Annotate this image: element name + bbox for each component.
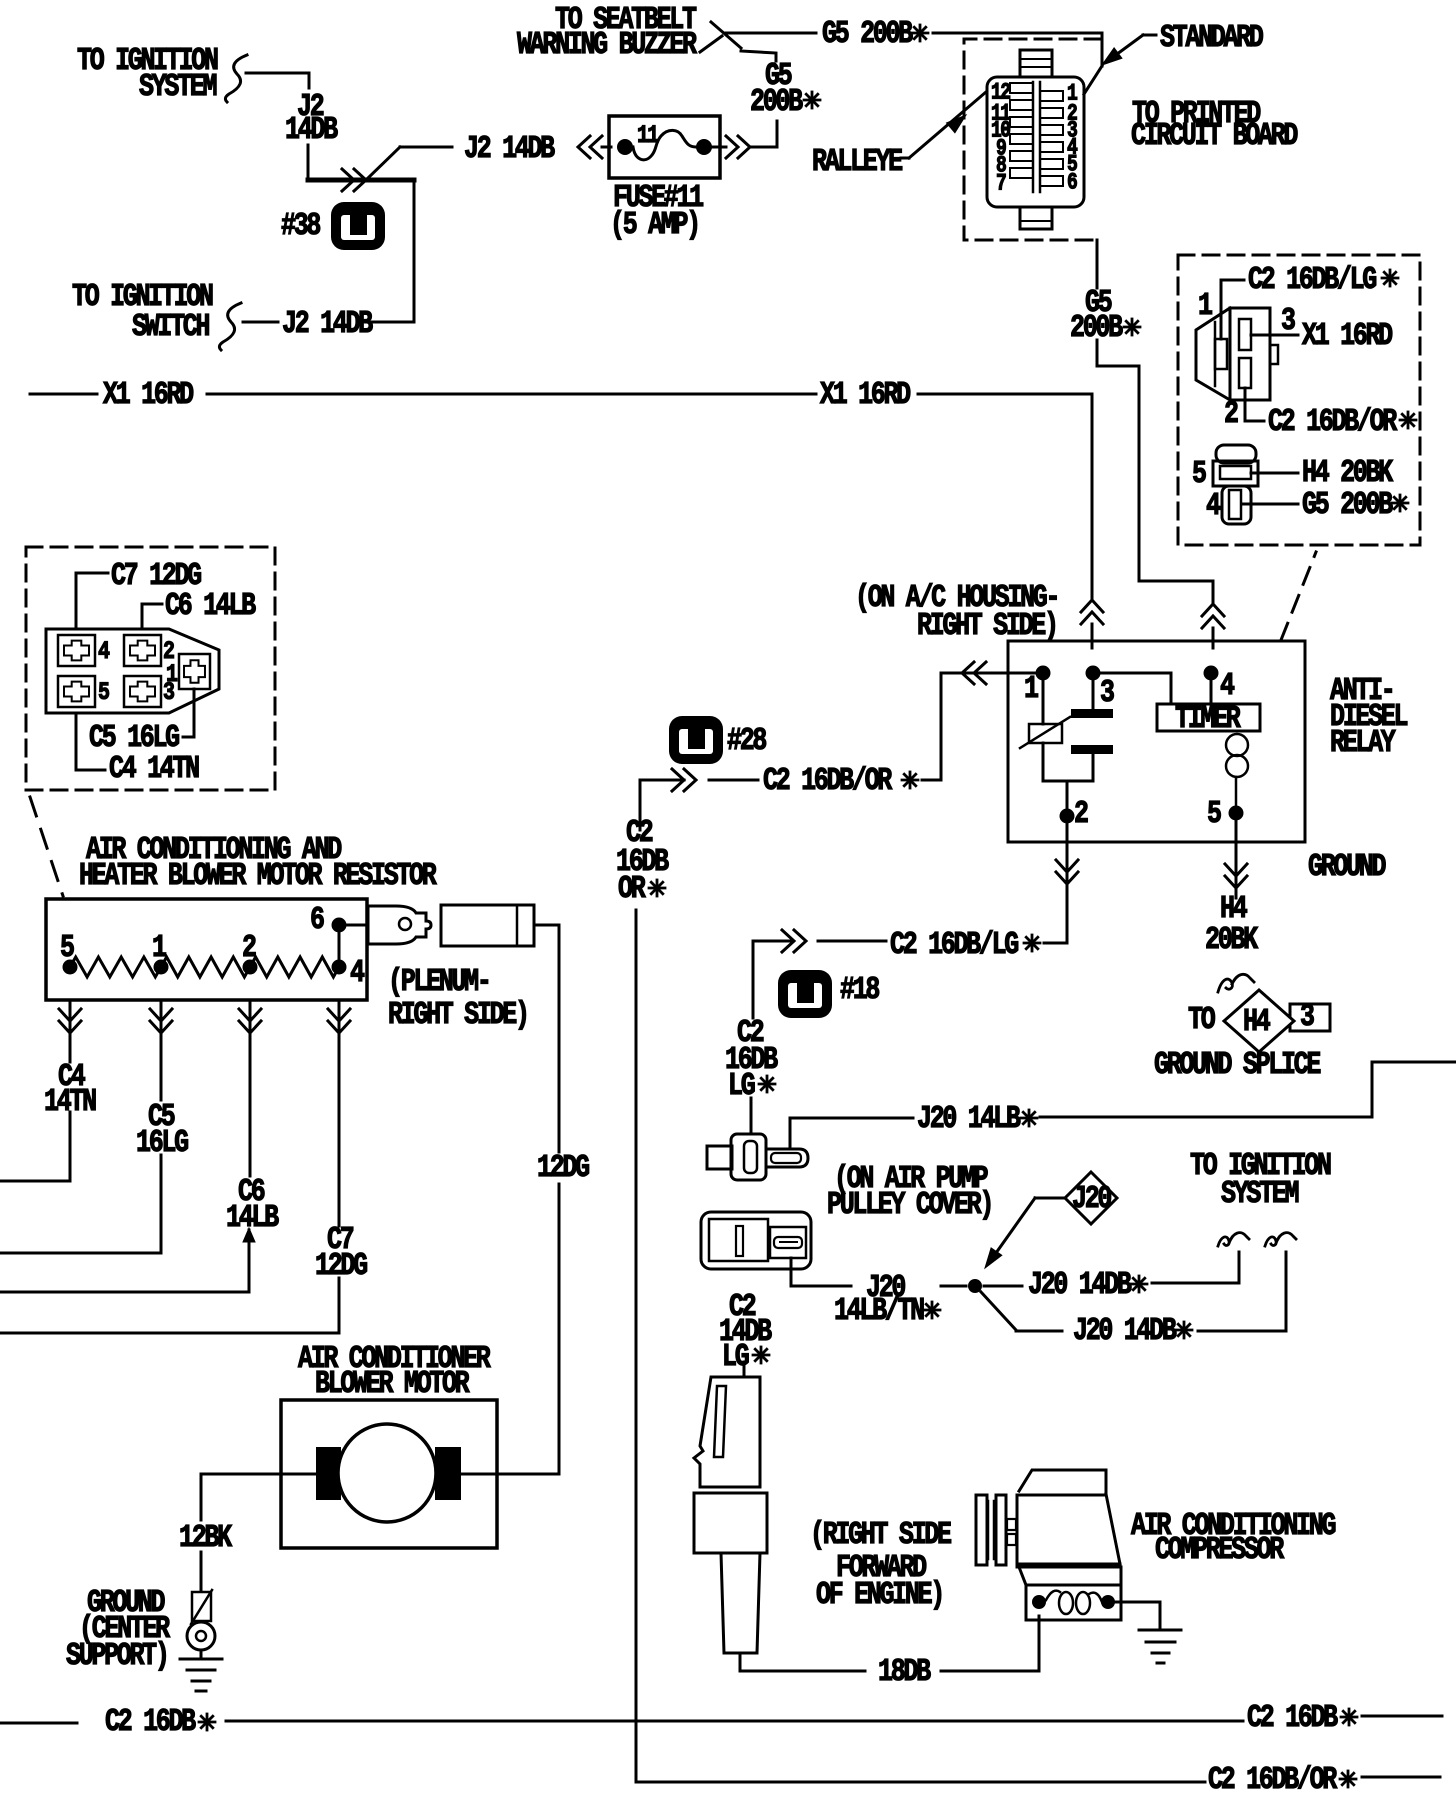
svg-text:4: 4	[1220, 667, 1235, 704]
svg-text:RELAY: RELAY	[1330, 724, 1397, 761]
svg-text:TO: TO	[1188, 1001, 1216, 1038]
svg-text:(5 AMP): (5 AMP)	[610, 206, 699, 243]
svg-text:200B: 200B	[750, 83, 803, 120]
svg-text:SUPPORT): SUPPORT)	[66, 1637, 168, 1674]
svg-text:COMPRESSOR: COMPRESSOR	[1155, 1531, 1285, 1568]
svg-text:20BK: 20BK	[1205, 921, 1259, 958]
svg-text:J20 14LB: J20 14LB	[917, 1100, 1021, 1137]
svg-text:1: 1	[152, 929, 166, 966]
svg-text:WARNING BUZZER: WARNING BUZZER	[517, 26, 698, 63]
svg-text:TIMER: TIMER	[1175, 700, 1242, 737]
svg-text:C2 16DB/OR: C2 16DB/OR	[763, 762, 893, 799]
svg-text:J20: J20	[1072, 1180, 1111, 1217]
svg-text:18DB: 18DB	[878, 1653, 931, 1690]
svg-text:SYSTEM: SYSTEM	[139, 68, 216, 105]
svg-text:1: 1	[1198, 287, 1212, 324]
svg-text:BLOWER MOTOR: BLOWER MOTOR	[315, 1365, 470, 1402]
svg-text:J2 14DB: J2 14DB	[464, 130, 555, 167]
svg-text:#28: #28	[727, 722, 766, 759]
svg-text:C2 16DB/LG: C2 16DB/LG	[1248, 261, 1376, 298]
svg-text:C6 14LB: C6 14LB	[165, 587, 256, 624]
svg-text:C2 16DB/LG: C2 16DB/LG	[890, 926, 1018, 963]
svg-text:PULLEY COVER): PULLEY COVER)	[827, 1186, 992, 1223]
svg-text:C4 14TN: C4 14TN	[109, 750, 199, 787]
svg-text:2: 2	[1224, 395, 1238, 432]
svg-text:7: 7	[996, 172, 1006, 198]
svg-text:C2 16DB: C2 16DB	[1247, 1699, 1338, 1736]
svg-text:5: 5	[1207, 795, 1221, 832]
svg-text:OF ENGINE): OF ENGINE)	[816, 1576, 943, 1613]
svg-text:14DB: 14DB	[285, 111, 338, 148]
svg-text:CIRCUIT BOARD: CIRCUIT BOARD	[1131, 117, 1298, 154]
svg-text:GROUND: GROUND	[1308, 848, 1386, 885]
svg-text:RIGHT SIDE): RIGHT SIDE)	[388, 996, 528, 1033]
svg-text:(RIGHT SIDE: (RIGHT SIDE	[810, 1516, 951, 1553]
svg-text:14LB: 14LB	[226, 1199, 279, 1236]
svg-text:3: 3	[1100, 674, 1114, 711]
svg-text:6: 6	[310, 901, 324, 938]
svg-text:2: 2	[242, 929, 256, 966]
svg-text:HEATER BLOWER MOTOR RESISTOR: HEATER BLOWER MOTOR RESISTOR	[79, 857, 438, 894]
svg-text:GROUND SPLICE: GROUND SPLICE	[1154, 1046, 1320, 1083]
svg-text:4: 4	[350, 954, 365, 991]
svg-text:12DG: 12DG	[537, 1149, 589, 1186]
svg-text:C2 16DB/OR: C2 16DB/OR	[1268, 403, 1398, 440]
svg-text:5: 5	[60, 929, 74, 966]
svg-text:STANDARD: STANDARD	[1160, 19, 1264, 56]
svg-text:11: 11	[637, 121, 659, 150]
svg-text:SYSTEM: SYSTEM	[1221, 1175, 1298, 1212]
svg-text:J2 14DB: J2 14DB	[282, 305, 373, 342]
svg-text:J20 14DB: J20 14DB	[1028, 1266, 1132, 1303]
svg-text:X1 16RD: X1 16RD	[820, 376, 911, 413]
svg-text:G5 200B: G5 200B	[822, 15, 913, 52]
svg-text:6: 6	[1067, 171, 1077, 197]
svg-text:3: 3	[1300, 998, 1314, 1035]
svg-text:C2 16DB: C2 16DB	[105, 1703, 196, 1740]
svg-text:1: 1	[1024, 670, 1038, 707]
svg-text:H4: H4	[1243, 1003, 1271, 1040]
svg-text:3: 3	[1281, 302, 1295, 339]
svg-text:X1 16RD: X1 16RD	[103, 376, 194, 413]
svg-text:5: 5	[1192, 455, 1206, 492]
svg-text:OR: OR	[618, 870, 646, 907]
svg-text:SWITCH: SWITCH	[132, 308, 209, 345]
svg-text:#18: #18	[840, 971, 879, 1008]
svg-text:14LB/TN: 14LB/TN	[834, 1292, 924, 1329]
svg-text:2: 2	[1074, 795, 1088, 832]
svg-text:4: 4	[1206, 487, 1221, 524]
svg-text:1: 1	[166, 660, 177, 689]
svg-text:RIGHT SIDE): RIGHT SIDE)	[917, 607, 1057, 644]
svg-text:12BK: 12BK	[179, 1519, 233, 1556]
svg-text:G5 200B: G5 200B	[1302, 486, 1393, 523]
svg-text:12DG: 12DG	[315, 1247, 367, 1284]
svg-text:5: 5	[98, 678, 109, 707]
svg-text:(PLENUM-: (PLENUM-	[388, 963, 490, 1000]
svg-text:C2 16DB/OR: C2 16DB/OR	[1208, 1761, 1338, 1798]
svg-text:RALLEYE: RALLEYE	[812, 143, 902, 180]
svg-text:J20 14DB: J20 14DB	[1073, 1312, 1177, 1349]
svg-text:#38: #38	[281, 207, 320, 244]
svg-text:X1 16RD: X1 16RD	[1302, 317, 1393, 354]
